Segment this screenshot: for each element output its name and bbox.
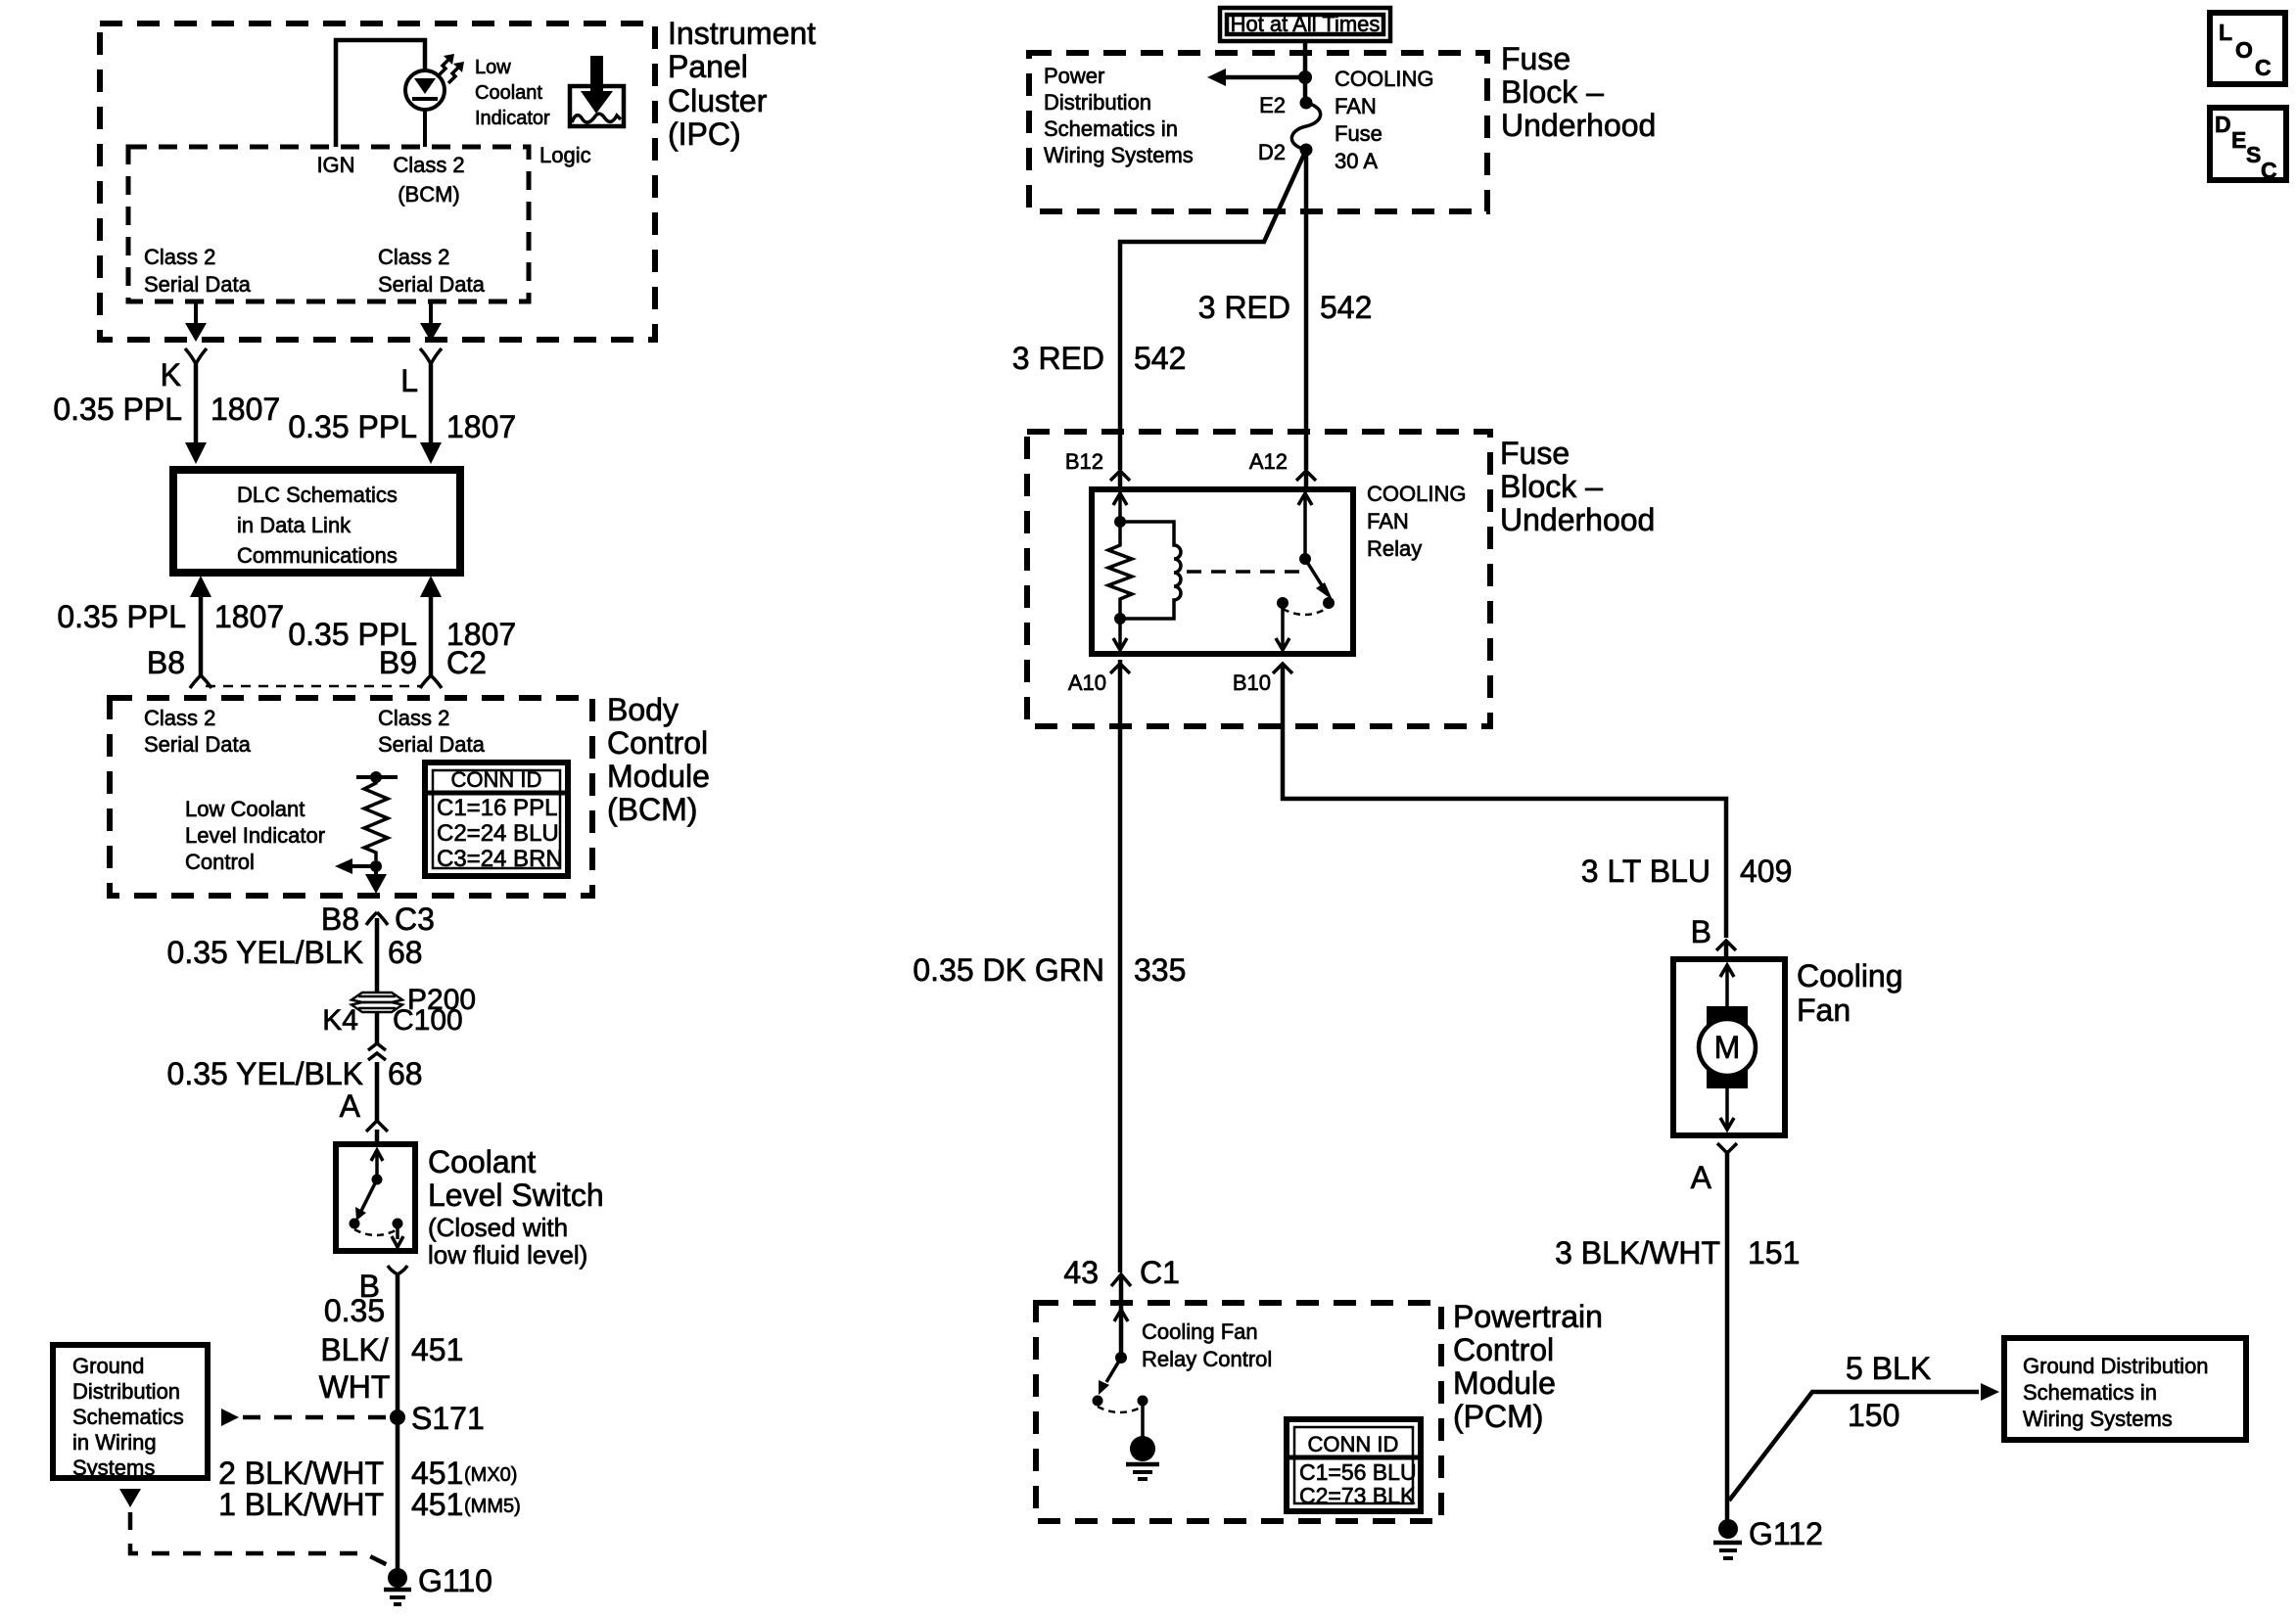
fuse block underhood dashed box (relay) [1027,432,1490,726]
svg-text:Logic: Logic [539,143,591,167]
svg-text:Indicator: Indicator [475,108,550,129]
svg-text:S171: S171 [411,1401,485,1436]
svg-text:(IPC): (IPC) [668,116,741,152]
label 0.35 YEL/BLK 68 (upper) [167,935,423,970]
dashed reference link to S171 with arrow [221,1409,388,1426]
label 3 RED 542 (right) [1198,290,1373,325]
svg-text:335: 335 [1134,952,1186,988]
hot at all times tag [1220,8,1390,41]
svg-text:B8: B8 [147,645,185,680]
svg-text:in Data Link: in Data Link [237,513,351,537]
svg-text:C: C [2255,55,2272,80]
connector B9/C2 at BCM [420,675,442,688]
svg-text:0.35 PPL: 0.35 PPL [57,599,186,634]
relay switch travel dashed arc [1283,609,1326,615]
svg-text:Communications: Communications [237,543,398,568]
svg-text:451: 451 [411,1487,463,1522]
label Fuse Block Underhood (top) [1501,41,1656,143]
connector B12 [1110,471,1130,489]
svg-text:3 RED: 3 RED [1012,341,1104,376]
wire BCM output down arrow [365,866,387,894]
wire 542 to A12 [1304,150,1309,470]
relay switch arm [1305,559,1335,609]
svg-text:B: B [1691,914,1711,949]
svg-text:Control: Control [607,725,708,761]
logic low-coolant icon [570,56,624,126]
svg-text:Serial Data: Serial Data [378,272,486,297]
coolant level switch box [336,1144,415,1251]
connector A below cooling fan [1717,1143,1737,1525]
label Power Distribution Schematics in Wiring Systems [1044,64,1194,167]
svg-text:542: 542 [1320,290,1372,325]
svg-text:Underhood: Underhood [1501,108,1656,143]
svg-text:Panel: Panel [668,49,748,84]
svg-text:Class 2: Class 2 [144,706,215,730]
label Instrument Panel Cluster (IPC) [668,16,816,152]
label Cooling Fan Relay Control [1142,1319,1272,1371]
label 0.35 PPL 1807 (K) [53,392,280,427]
svg-text:5 BLK: 5 BLK [1846,1351,1931,1386]
svg-text:CONN ID: CONN ID [451,767,542,792]
svg-text:68: 68 [388,935,423,970]
svg-text:451: 451 [411,1332,463,1367]
svg-text:CONN ID: CONN ID [1308,1432,1399,1456]
svg-text:C1=16 PPL: C1=16 PPL [437,795,557,821]
pass-through connector P200 [351,993,402,1012]
svg-text:Powertrain: Powertrain [1453,1299,1603,1334]
svg-text:Relay Control: Relay Control [1142,1347,1272,1371]
cooling fan relay box [1092,489,1353,654]
relay resistor [1108,522,1132,619]
svg-text:0.35 YEL/BLK: 0.35 YEL/BLK [167,1056,363,1091]
label 0.35 DK GRN 335 [913,952,1186,988]
ground distribution reference box (right) [2004,1338,2246,1440]
svg-text:Fuse: Fuse [1501,41,1570,76]
svg-text:Wiring Systems: Wiring Systems [1044,143,1194,167]
svg-text:BLK/: BLK/ [320,1332,388,1367]
svg-text:0.35 DK GRN: 0.35 DK GRN [913,952,1104,988]
svg-text:C100: C100 [393,1004,463,1037]
svg-text:Cooling Fan: Cooling Fan [1142,1319,1258,1344]
svg-text:Class 2: Class 2 [378,706,449,730]
label Class 2 Serial Data (BCM left) [144,706,252,757]
svg-text:B12: B12 [1065,449,1103,474]
label Ground Distribution Schematics in Wiring Systems (left) [72,1354,184,1480]
PCM driver switch [1093,1352,1148,1412]
wire IPC class2 exit left with arrow [185,301,207,342]
svg-text:A12: A12 [1249,449,1288,474]
svg-text:D2: D2 [1258,140,1286,164]
svg-text:409: 409 [1740,854,1792,889]
svg-text:Coolant: Coolant [428,1144,536,1179]
wire IPC class2 exit right with arrow [420,301,442,342]
wire 542 branch to B12 [1120,150,1306,470]
wire 409 B10 to cooling fan [1283,664,1726,938]
svg-text:B8: B8 [321,901,359,937]
svg-text:Systems: Systems [72,1455,155,1480]
label (Closed with low fluid level) [428,1213,587,1270]
label Class 2 Serial Data (BCM right) [378,706,486,757]
svg-text:G110: G110 [418,1563,492,1598]
svg-text:(BCM): (BCM) [398,182,460,207]
label 0.35 YEL/BLK 68 (lower) [167,1056,423,1091]
svg-text:Fuse: Fuse [1500,436,1570,471]
svg-text:0.35 YEL/BLK: 0.35 YEL/BLK [167,935,363,970]
svg-text:1807: 1807 [214,599,284,634]
svg-text:(Closed with: (Closed with [428,1213,568,1242]
wire 451 from switch to G110 [396,1274,400,1574]
svg-text:DLC Schematics: DLC Schematics [237,483,398,507]
svg-text:150: 150 [1848,1398,1899,1433]
svg-text:Coolant: Coolant [475,82,542,104]
svg-text:O: O [2235,37,2253,63]
svg-text:Power: Power [1044,64,1104,88]
node at top of BCM pull-up resistor [356,771,398,783]
svg-text:1807: 1807 [446,409,516,444]
svg-text:C1: C1 [1140,1255,1180,1290]
instrument panel cluster IPC outer dashed box [100,23,655,340]
resistor in BCM [364,777,388,860]
svg-text:Serial Data: Serial Data [144,732,252,757]
svg-text:Block –: Block – [1500,469,1603,504]
label Class 2 (BCM) pin [393,153,464,207]
connector K at IPC [185,348,207,364]
svg-text:Module: Module [1453,1365,1556,1401]
svg-text:D: D [2215,112,2231,137]
svg-text:K: K [161,357,181,393]
connector C100 double chevron [368,1043,386,1060]
in-harness dashed link B8 to B9 [206,685,423,688]
node relay coil top [1114,516,1126,528]
svg-text:C2=24 BLU: C2=24 BLU [437,820,559,847]
svg-text:WHT: WHT [319,1369,391,1405]
svg-text:30 A: 30 A [1335,149,1378,173]
connector B at cooling fan [1716,941,1736,959]
svg-text:C1=56 BLU: C1=56 BLU [1299,1459,1417,1485]
node hot bus [1298,70,1312,84]
svg-text:FAN: FAN [1367,509,1409,533]
svg-text:151: 151 [1748,1235,1800,1270]
svg-text:Ground Distribution: Ground Distribution [2023,1354,2209,1378]
svg-text:B10: B10 [1233,670,1271,695]
wire from P200 to C100 crossing [375,1012,380,1043]
svg-text:0.35 PPL: 0.35 PPL [53,392,182,427]
svg-text:COOLING: COOLING [1367,482,1466,506]
svg-text:B9: B9 [379,645,417,680]
connector L at IPC [420,348,442,364]
svg-text:1807: 1807 [211,392,280,427]
svg-text:Distribution: Distribution [72,1379,180,1404]
svg-text:Body: Body [607,692,679,727]
label 0.35 PPL 1807 (B8) [57,599,284,634]
label Low Coolant Indicator [475,57,550,129]
label 3 LT BLU 409 [1581,854,1793,889]
svg-text:Schematics in: Schematics in [2023,1380,2157,1405]
fuse block underhood dashed box (top) [1029,53,1487,211]
svg-text:Class 2: Class 2 [393,153,464,177]
CONN ID table BCM [425,762,568,876]
svg-text:Level Switch: Level Switch [428,1178,604,1213]
junction node low coolant level indicator control [370,860,382,872]
svg-text:Cooling: Cooling [1797,958,1903,993]
svg-text:Class 2: Class 2 [144,245,215,269]
svg-text:in Wiring: in Wiring [72,1430,157,1455]
wire 335 A10 down to PCM [1118,666,1123,1272]
DLC schematics box [173,470,460,573]
label Body Control Module (BCM) [607,692,710,827]
splice S171 [390,1409,405,1425]
relay switch common arrow A12 [1298,493,1312,559]
relay coil [1120,522,1181,619]
wire 1807 from K with arrow into DLC [185,364,207,464]
svg-text:Class 2: Class 2 [378,245,449,269]
wire IGN feed [336,40,425,147]
LOC reference box [2210,13,2285,84]
svg-text:L: L [400,363,418,398]
label COOLING FAN Relay [1367,482,1466,561]
svg-text:COOLING: COOLING [1335,67,1433,91]
connector B10 [1273,664,1292,673]
low coolant indicator lamp [405,70,445,147]
svg-text:3 RED: 3 RED [1198,290,1290,325]
relay coil output arrow A10 [1113,619,1127,650]
coolant level switch contacts [350,1150,404,1247]
svg-text:IGN: IGN [316,153,354,177]
svg-text:A10: A10 [1068,670,1106,695]
svg-text:2 BLK/WHT: 2 BLK/WHT [218,1455,384,1491]
connector B8 at BCM [190,675,211,688]
relay coil input arrow B12 [1113,493,1127,522]
label Low Coolant Level Indicator Control [185,797,325,874]
DESC reference box [2210,108,2286,183]
label Coolant Level Switch [428,1144,604,1213]
power distribution arrow pointing left [1207,69,1305,86]
svg-text:E: E [2231,127,2246,153]
svg-text:C3: C3 [395,901,435,937]
cooling fan relay control driver arrow [1114,1310,1128,1321]
wire 1807 B9 up arrow into DLC [420,576,442,675]
svg-text:C2=73 BLK: C2=73 BLK [1299,1483,1416,1508]
svg-text:Fan: Fan [1797,993,1851,1028]
connector B below switch [388,1266,407,1274]
svg-text:43: 43 [1063,1255,1099,1290]
svg-text:L: L [2219,20,2232,45]
svg-text:1 BLK/WHT: 1 BLK/WHT [218,1487,384,1522]
relay switch output arrow B10 [1276,603,1289,650]
svg-text:(MM5): (MM5) [464,1496,521,1517]
IPC logic inner dashed box [128,147,529,301]
svg-text:0.35 PPL: 0.35 PPL [288,409,417,444]
svg-text:K4: K4 [322,1004,358,1037]
wire 150 branch to ground distribution [1729,1383,1999,1501]
label Powertrain Control Module (PCM) [1453,1299,1603,1434]
svg-text:A: A [1691,1160,1712,1195]
control tap arrow pointing left [335,858,376,874]
svg-text:Fuse: Fuse [1335,121,1382,146]
label 0.35 PPL 1807 (L) [288,409,516,444]
label Cooling Fan [1797,958,1903,1028]
svg-text:(MX0): (MX0) [464,1464,517,1486]
svg-text:Instrument: Instrument [668,16,816,51]
label 1 BLK/WHT 451 (MM5) [218,1487,521,1522]
label 0.35 BLK/ WHT [319,1293,391,1405]
svg-text:Cluster: Cluster [668,83,768,118]
svg-text:Control: Control [185,850,255,874]
svg-text:(PCM): (PCM) [1453,1399,1543,1434]
svg-text:Relay: Relay [1367,536,1422,561]
svg-text:Ground: Ground [72,1354,144,1378]
lamp light rays [439,54,464,83]
svg-text:Distribution: Distribution [1044,90,1151,115]
CONN ID table PCM [1287,1419,1421,1511]
svg-text:Block –: Block – [1501,74,1604,110]
node relay switch common [1299,553,1311,565]
ground G110 [384,1568,411,1604]
ground distribution reference box (left) [53,1345,208,1478]
svg-text:Serial Data: Serial Data [144,272,252,297]
svg-text:68: 68 [388,1056,423,1091]
connector B8/C3 below BCM [366,912,388,993]
svg-text:Control: Control [1453,1332,1554,1367]
svg-text:3 BLK/WHT: 3 BLK/WHT [1555,1235,1720,1270]
svg-text:C3=24 BRN: C3=24 BRN [437,846,563,872]
wire 68 below C100 [375,1062,380,1121]
node relay coil bottom [1114,613,1126,624]
label DLC Schematics in Data Link Communications [237,483,398,568]
svg-text:Level Indicator: Level Indicator [185,823,325,848]
wire hot feed into fuse block [1303,41,1308,103]
svg-text:C: C [2261,158,2277,183]
wire 1807 B8 up arrow into DLC [190,576,211,675]
wire 1807 from L with arrow into DLC [420,364,442,464]
svg-text:FAN: FAN [1335,94,1377,118]
label Fuse Block Underhood (relay) [1500,436,1655,537]
svg-text:Hot at All Times: Hot at All Times [1231,12,1381,36]
svg-text:542: 542 [1134,341,1186,376]
svg-text:Schematics in: Schematics in [1044,116,1178,141]
svg-text:G112: G112 [1749,1516,1823,1551]
label Class 2 Serial Data (right) [378,245,486,297]
body control module BCM dashed box [110,698,592,896]
svg-text:451: 451 [411,1455,463,1491]
svg-text:Underhood: Underhood [1500,502,1655,537]
svg-text:Wiring Systems: Wiring Systems [2023,1407,2173,1431]
svg-text:low fluid level): low fluid level) [428,1240,587,1270]
PCM internal ground [1126,1401,1159,1479]
label Class 2 Serial Data (left) [144,245,252,297]
svg-text:C2: C2 [446,645,487,680]
label 3 BLK/WHT 151 [1555,1235,1800,1270]
dashed ground reference path from left box [119,1489,390,1566]
relay actuation dashed link [1187,570,1300,574]
svg-text:0.35: 0.35 [324,1293,385,1328]
svg-text:(BCM): (BCM) [607,792,697,827]
svg-text:3 LT BLU: 3 LT BLU [1581,854,1710,889]
label 0.35 PPL 1807 (B9) [288,617,516,652]
cooling fan box [1673,959,1785,1135]
relay switch contact node B10 [1277,597,1289,609]
svg-text:Low Coolant: Low Coolant [185,797,305,821]
svg-text:M: M [1714,1030,1741,1065]
cooling fan fuse 30A [1291,97,1320,157]
powertrain control module PCM dashed box [1036,1303,1441,1521]
svg-text:Schematics: Schematics [72,1405,184,1429]
svg-text:Module: Module [607,759,710,794]
label Ground Distribution Schematics in Wiring Systems (right) [2023,1354,2209,1431]
label 3 RED 542 (left) [1012,341,1187,376]
cooling fan motor [1699,965,1756,1130]
label COOLING FAN Fuse 30 A [1335,67,1433,173]
svg-text:Serial Data: Serial Data [378,732,486,757]
svg-text:S: S [2246,142,2261,167]
ground G112 [1713,1519,1742,1558]
connector A at coolant level switch [366,1121,388,1144]
svg-text:E2: E2 [1259,93,1286,117]
svg-text:A: A [340,1088,361,1124]
connector A10 [1110,660,1130,673]
connector C1 at PCM [1111,1274,1131,1358]
svg-text:Low: Low [475,57,511,78]
label 2 BLK/WHT 451 (MX0) [218,1455,517,1491]
connector A12 [1296,471,1316,489]
